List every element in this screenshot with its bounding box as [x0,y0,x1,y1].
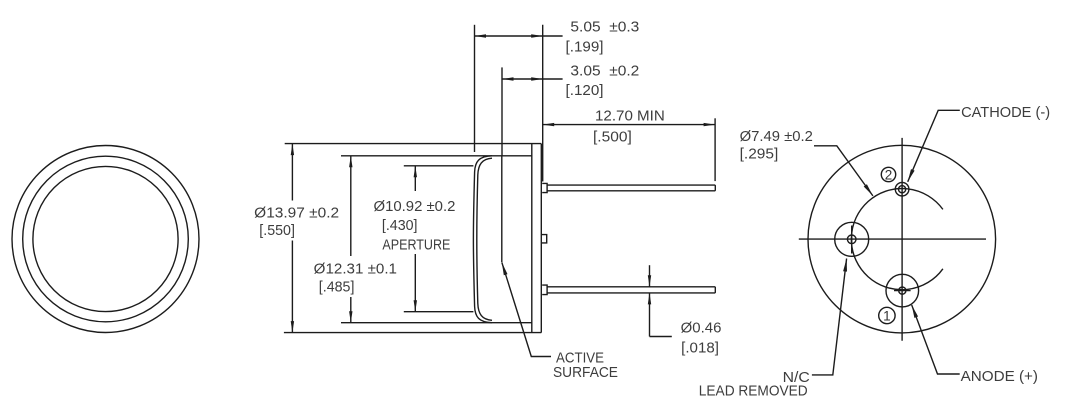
svg-text:[.295]: [.295] [740,147,779,163]
svg-text:5.05 ±0.3: 5.05 ±0.3 [570,20,639,36]
svg-text:APERTURE: APERTURE [382,238,450,254]
svg-text:ACTIVE: ACTIVE [556,350,604,366]
svg-text:Ø13.97 ±0.2: Ø13.97 ±0.2 [254,205,339,221]
svg-text:3.05 ±0.2: 3.05 ±0.2 [570,64,639,80]
svg-text:[.018]: [.018] [681,341,719,357]
svg-text:[.120]: [.120] [566,83,604,99]
svg-text:CATHODE (-): CATHODE (-) [961,105,1050,121]
svg-text:Ø7.49 ±0.2: Ø7.49 ±0.2 [740,129,813,145]
svg-text:Ø12.31 ±0.1: Ø12.31 ±0.1 [314,261,397,277]
svg-text:[.500]: [.500] [593,129,632,145]
svg-text:ANODE (+): ANODE (+) [961,369,1038,385]
svg-text:12.70 MIN: 12.70 MIN [595,108,665,124]
svg-text:[.485]: [.485] [319,280,355,296]
svg-text:1: 1 [883,309,891,324]
svg-text:[.199]: [.199] [566,39,604,55]
svg-text:SURFACE: SURFACE [553,365,618,381]
svg-text:[.430]: [.430] [382,218,418,234]
svg-text:Ø0.46: Ø0.46 [681,320,722,336]
svg-text:2: 2 [885,168,893,183]
svg-text:Ø10.92 ±0.2: Ø10.92 ±0.2 [374,199,456,215]
svg-text:LEAD REMOVED: LEAD REMOVED [699,383,808,399]
svg-text:[.550]: [.550] [259,223,295,239]
